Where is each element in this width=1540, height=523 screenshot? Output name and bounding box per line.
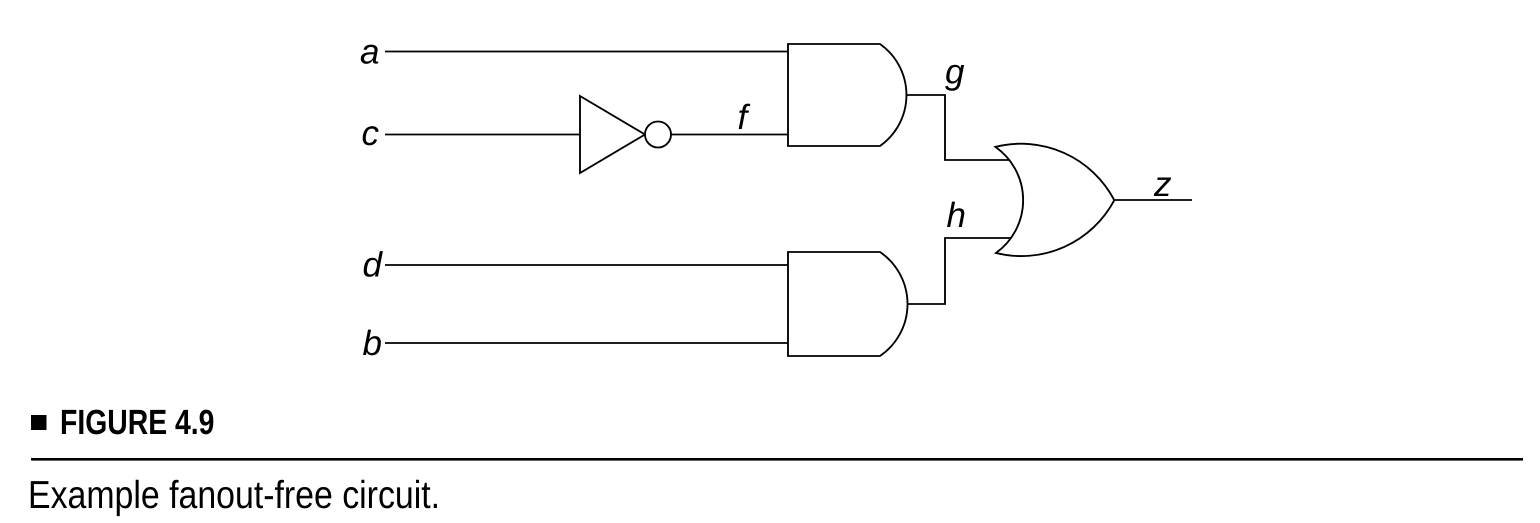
svg-text:c: c (362, 114, 380, 153)
svg-text:a: a (360, 33, 379, 72)
svg-text:d: d (363, 246, 384, 285)
svg-text:f: f (738, 98, 751, 137)
svg-text:g: g (945, 53, 965, 92)
svg-text:z: z (1153, 165, 1172, 204)
svg-text:Example fanout-free circuit.: Example fanout-free circuit. (28, 474, 440, 517)
svg-text:FIGURE 4.9: FIGURE 4.9 (60, 403, 214, 442)
svg-text:b: b (363, 324, 382, 363)
svg-text:h: h (947, 196, 966, 235)
